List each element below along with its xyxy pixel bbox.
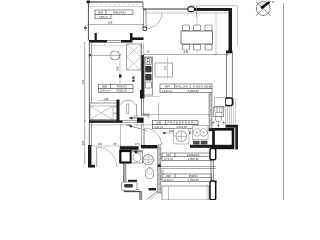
door swing bathroom [97,147,117,167]
hallway wardrobe niche doors [121,100,138,118]
wall: hallway bottom black bar [141,145,158,148]
window: right wall salon [226,51,233,101]
entrance arrow [129,117,142,120]
north arrow [256,0,274,16]
svg-text:425: 425 [81,140,85,145]
svg-text:006: 006 [98,11,103,15]
wall: kitchen end (merged into divider above) [0,0,1,1]
wall: bedroom bottom [89,100,144,123]
svg-text:138: 138 [104,97,109,101]
leader dot przedpokoj [126,123,147,131]
svg-text:448: 448 [184,50,189,54]
reference line salon left [196,13,198,54]
door swing room 002 [147,191,163,200]
dimension row corridor bottom [91,142,157,146]
junction dot bathroom [135,151,137,153]
svg-text:361: 361 [81,79,85,84]
armchair bedroom 008 [111,51,120,60]
kitchen counter [144,57,152,95]
svg-text:11,49 m²: 11,49 m² [163,178,173,182]
bed room 002 [162,186,209,200]
reference line salon right [215,13,217,54]
toilet oval [145,168,154,179]
room 002 inner edge [206,184,208,200]
svg-text:008: 008 [102,85,107,89]
wall: bathroom hatched divider [158,147,161,193]
room label table 003 LAZIENKA [162,153,212,161]
svg-text:168: 168 [116,66,120,71]
chairs top row [183,25,213,31]
svg-text:4,05/2,60: 4,05/2,60 [188,157,199,161]
svg-text:PRZEDPOKÓJ: PRZEDPOKÓJ [168,120,197,125]
wall: right exterior upper [229,9,233,53]
dimension 84 vertical [161,154,165,157]
ceiling lamp przedpokoj [174,129,190,145]
balcony door leaf and swing [143,10,162,30]
svg-text:11,45 m²: 11,45 m² [99,89,109,93]
dimension 163 przedpokoj [163,129,190,134]
site boundary line right [283,3,285,200]
dimension 448 kitchen/salon [143,50,229,56]
wall: bottom-left boundary steps [124,163,142,201]
dining table [181,31,213,44]
duct lines right of WC [226,106,231,125]
room label table 002 POKOJ [162,173,212,182]
balcony railing [86,1,143,41]
wall: bedroom left exterior (double line) [89,43,91,145]
kitchen island [155,63,173,77]
site boundary line left (none) [0,0,1,1]
svg-text:3,73 m²: 3,73 m² [164,157,173,161]
leader vertical to przedpokoj table [158,103,160,120]
dimension 138 bedroom [98,97,120,101]
svg-text:21,43 m²: 21,43 m² [162,89,172,93]
svg-text:163: 163 [169,129,174,133]
wall: right exterior pier [225,98,232,106]
toilet WC [211,107,225,128]
dimension arrow tick above table [119,75,135,82]
corridor wall thin vertical [120,125,122,147]
dimension 157 vertical kitchen [163,57,167,79]
wall: hallway left of przedpokoj (double line) [142,123,144,145]
svg-text:7,58 m²: 7,58 m² [99,15,108,19]
washer and basin [193,126,209,145]
svg-text:157: 157 [163,65,167,70]
svg-text:4,05/2,60: 4,05/2,60 [188,178,199,182]
wall: bathroom top-left black bar [120,146,139,150]
wall: shaft left (thick box) [120,151,131,163]
svg-text:161: 161 [188,130,192,135]
wardrobe bedroom 008 [127,44,142,70]
bed bedroom 008 [90,103,119,120]
wall: salon top exterior [143,6,232,17]
svg-text:4,21 m²: 4,21 m² [154,125,163,129]
window pier bottom right upper [210,149,216,160]
svg-text:228: 228 [108,20,113,24]
dimension 24 [158,143,161,147]
dimension 228 balcony [87,20,144,25]
building outline offset top-right [190,6,238,45]
dimension line bedroom horizontal [89,54,121,56]
dimension line under bedroom wall [90,124,152,126]
room label table 006 BALKON [95,10,133,19]
wall: shaft right (thick box) [209,125,238,150]
dimension 161 vertical przedpokoj [188,130,192,135]
svg-text:177: 177 [135,142,140,146]
chairs bottom row [183,44,213,50]
room label table 004 SALON Z ANEKSEM [160,84,212,93]
dimension left vertical [81,42,86,164]
door swing bedroom door from hallway [145,128,162,145]
dimension 155 vertical [161,169,165,174]
wall: bathroom/room002 divider thin double [161,166,216,168]
dimension line przedpokoj top [143,114,210,116]
wall: WC hatched divider [209,93,212,131]
wall: salon bottom thin line [144,96,161,98]
dimension 140 (merged into row above) [0,0,1,1]
svg-text:004: 004 [165,85,170,89]
svg-text:130: 130 [98,142,103,146]
wall: top of bedroom (left wing) with window [89,33,144,45]
room label table 005 PRZEDPOKOJ [152,120,198,129]
svg-text:4,05/2,60: 4,05/2,60 [188,89,199,93]
svg-text:BALKON: BALKON [113,11,125,15]
cabinet WC corner [215,98,226,107]
svg-text:155: 155 [161,169,165,174]
svg-text:005: 005 [156,121,161,125]
svg-text:ŁAZIENKA: ŁAZIENKA [187,153,200,157]
svg-text:4,05/2,60: 4,05/2,60 [116,89,127,93]
outer line right of WC [234,98,236,126]
dimension ticks left balcony [84,25,87,31]
wall: left exterior lower with foot [88,145,95,168]
wall: bedroom right / kitchen divider [140,43,150,118]
room label table 008 POKOJ [99,84,134,93]
svg-text:003: 003 [166,153,171,157]
window pier bottom right lower [210,181,216,200]
svg-text:SALON Z ANEKSEM: SALON Z ANEKSEM [175,85,212,89]
washbasin bathroom [143,155,153,165]
dimension 168 vertical bedroom [116,55,120,84]
wall piece above door room002 [149,188,157,190]
svg-text:N: N [272,0,274,4]
svg-text:POKÓJ: POKÓJ [117,84,128,89]
toilet bathroom [122,180,138,191]
wall: bathroom top (black bar) [190,145,232,148]
svg-text:002: 002 [166,174,171,178]
sink bathroom [132,151,143,164]
window bottom right [211,160,217,183]
